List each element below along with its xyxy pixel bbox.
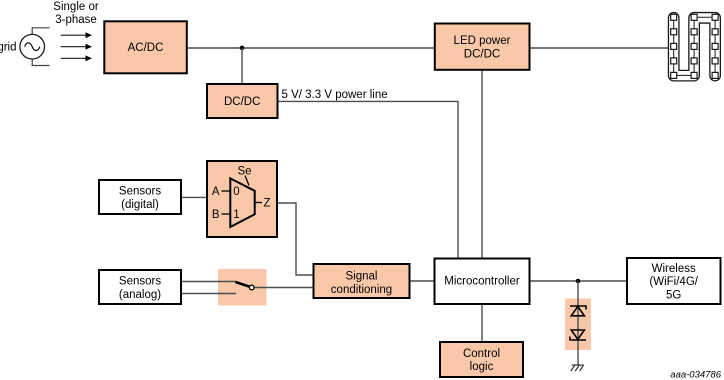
svg-text:DC/DC: DC/DC — [464, 48, 500, 60]
svg-text:AC/DC: AC/DC — [128, 42, 164, 54]
Sensors digital block — [99, 180, 181, 214]
Wireless block — [627, 258, 721, 304]
wire LED power DC/DC down to Microcontroller — [481, 71, 483, 258]
LED power DC/DC block — [435, 24, 530, 70]
wire Sensors analog to switch lower contact — [182, 293, 236, 295]
svg-text:Sensors: Sensors — [119, 276, 161, 288]
switch block S1 background — [218, 269, 267, 306]
svg-text:aaa-034786: aaa-034786 — [670, 370, 721, 380]
node junction on wireless wire — [576, 279, 581, 284]
grid AC source G1 — [0, 28, 50, 66]
svg-text:(analog): (analog) — [119, 289, 161, 301]
wire LED power DC/DC to LED string — [530, 47, 669, 49]
DC/DC converter block — [207, 84, 278, 118]
svg-text:logic: logic — [470, 361, 494, 373]
Microcontroller block — [435, 259, 530, 305]
wire phase arrow 3 — [61, 55, 92, 61]
mux input A stub — [222, 190, 231, 192]
wire mux Z to Signal conditioning — [278, 203, 313, 275]
mux trapezoid — [230, 178, 254, 227]
Control logic block — [440, 342, 523, 377]
switch lever S1 — [236, 282, 255, 290]
zener diode D1 (cathode up) — [570, 306, 586, 310]
wire Sensors analog to switch upper contact — [182, 281, 236, 283]
switch pole contact — [249, 285, 254, 290]
svg-text:B: B — [212, 209, 220, 221]
wire phase arrow 1 — [61, 32, 92, 38]
mux select line — [245, 176, 249, 186]
wire Sensors digital to mux — [182, 196, 207, 198]
wire 5V/3.3V power line DC/DC to Microcontroller — [279, 101, 459, 258]
Sensors analog block — [99, 270, 181, 304]
label Single or 3-phase — [53, 1, 99, 26]
svg-text:Wireless: Wireless — [652, 263, 696, 275]
svg-text:3-phase: 3-phase — [55, 14, 97, 26]
svg-text:Single or: Single or — [53, 1, 99, 13]
mux input B stub — [222, 213, 231, 215]
wire junction down through TVS diodes to ground — [577, 281, 579, 365]
svg-text:Se: Se — [237, 166, 251, 178]
svg-text:Z: Z — [264, 198, 271, 210]
mux output Z stub — [255, 202, 262, 204]
wire Microcontroller down to Control logic — [481, 305, 483, 342]
wire switch to Signal conditioning — [252, 287, 313, 289]
svg-text:LED power: LED power — [454, 35, 511, 47]
svg-text:A: A — [212, 186, 220, 198]
TVS diode block background — [565, 299, 591, 351]
svg-text:DC/DC: DC/DC — [224, 96, 260, 108]
svg-text:Control: Control — [463, 348, 500, 360]
wire Microcontroller to Wireless — [531, 280, 628, 282]
Signal conditioning block — [314, 264, 410, 298]
svg-text:(digital): (digital) — [121, 199, 159, 211]
svg-text:conditioning: conditioning — [331, 284, 392, 296]
AC/DC converter block — [104, 21, 187, 73]
svg-text:(WiFi/4G/: (WiFi/4G/ — [649, 276, 698, 288]
ground — [571, 365, 584, 371]
wire junction down to DC/DC — [241, 48, 243, 84]
svg-text:Signal: Signal — [346, 271, 378, 283]
multiplexer block — [207, 161, 277, 237]
svg-text:5G: 5G — [666, 289, 681, 301]
wire Signal conditioning to Microcontroller — [411, 280, 435, 282]
zener diode D2 (cathode down) — [571, 330, 584, 339]
svg-text:1: 1 — [233, 209, 239, 221]
LED string module — [671, 14, 718, 78]
TVS protection diodes D1 D2 — [570, 306, 586, 340]
wire AC/DC to LED power DC/DC — [188, 47, 435, 49]
svg-text:Microcontroller: Microcontroller — [444, 275, 520, 287]
node junction above DC/DC — [240, 46, 245, 51]
svg-text:5 V/ 3.3 V power line: 5 V/ 3.3 V power line — [282, 89, 388, 101]
svg-text:Sensors: Sensors — [119, 186, 161, 198]
svg-text:0: 0 — [233, 186, 239, 198]
wire phase arrow 2 — [61, 44, 92, 50]
svg-text:grid: grid — [0, 42, 17, 54]
